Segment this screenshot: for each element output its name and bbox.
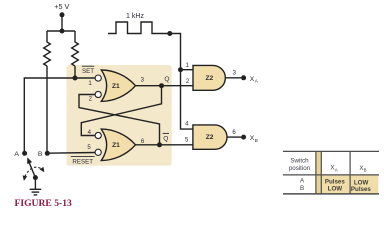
svg-text:Z1: Z1 (112, 83, 120, 90)
resistor R1 (left pull-up) (44, 31, 51, 66)
resistor R2 (right pull-up) (72, 31, 79, 66)
wire clock branch to Z2a pin 1 (181, 69, 194, 71)
junction clock branch dot (178, 67, 183, 72)
switch pole dot (33, 175, 38, 180)
svg-text:SET: SET (82, 68, 94, 75)
svg-text:B: B (255, 138, 258, 143)
svg-text:B: B (300, 185, 304, 192)
wire Qbar output line (136, 144, 193, 146)
wire pole to ground (34, 178, 36, 190)
Z1b input bubble pin4 (95, 132, 101, 138)
wire contact A up to SET line (24, 78, 95, 153)
svg-text:1 kHz: 1 kHz (126, 13, 144, 20)
Z1b input bubble pin5 (95, 149, 101, 155)
node clock terminal dot (167, 31, 172, 36)
AND-shape gate Z2b (bottom) (193, 125, 227, 149)
NAND Z1b body (negative-OR shape, bottom) (101, 129, 135, 160)
power supply terminal dot (60, 12, 65, 17)
wire clock to Z2 column (170, 34, 193, 130)
junction SET line / R2 dot (73, 76, 78, 81)
table tan strip column (316, 151, 321, 194)
wire feedback Q to Z1b pin4 (81, 86, 161, 136)
svg-text:B: B (364, 168, 367, 173)
svg-text:FIGURE 5-13: FIGURE 5-13 (15, 198, 72, 209)
ground (30, 188, 42, 190)
node XB dot (241, 135, 246, 140)
svg-text:Z2: Z2 (206, 134, 214, 141)
switch contact B dot (45, 151, 50, 156)
latch highlight box (67, 65, 172, 166)
node Qbar dot (157, 142, 162, 147)
svg-text:+5 V: +5 V (54, 2, 69, 11)
node Q dot (159, 83, 164, 88)
svg-text:LOW: LOW (328, 186, 343, 193)
node XA dot (241, 75, 246, 80)
switch arm with arrowhead toward A (29, 163, 35, 178)
wire supply rail (47, 30, 75, 32)
wire Z2b output (227, 136, 241, 138)
svg-text:A: A (14, 151, 19, 158)
svg-text:RESET: RESET (72, 158, 93, 165)
clock waveform (108, 22, 168, 34)
junction supply rail (60, 29, 65, 34)
wire Q output line (136, 85, 194, 87)
Z1a input bubble pin1 (95, 75, 101, 81)
svg-text:Q: Q (164, 76, 169, 83)
table tan data cells (321, 175, 378, 194)
switch toggle dashed arc (25, 167, 43, 176)
svg-text:Z2: Z2 (205, 75, 213, 82)
AND-shape gate Z2a (top) (193, 65, 225, 90)
svg-text:A: A (335, 167, 338, 172)
wire Z2a output (225, 77, 241, 79)
wire RESET line from contact B (47, 152, 95, 155)
wire R1 to contact B (46, 66, 48, 153)
svg-text:position: position (289, 165, 311, 172)
svg-text:Q: Q (163, 136, 168, 143)
wire supply vertical (61, 15, 63, 31)
svg-text:Switch: Switch (290, 158, 309, 165)
wire feedback Qbar to Z1a pin2 (79, 95, 160, 145)
wire R2 to SET line (74, 66, 76, 78)
Z1a input bubble pin2 (95, 91, 101, 97)
svg-text:B: B (38, 151, 43, 158)
switch contact A dot (22, 151, 27, 156)
table rules (283, 150, 379, 152)
svg-text:Pulses: Pulses (351, 186, 372, 193)
svg-text:Z1: Z1 (112, 142, 120, 149)
NAND Z1a body (negative-OR shape, top) (101, 70, 135, 101)
